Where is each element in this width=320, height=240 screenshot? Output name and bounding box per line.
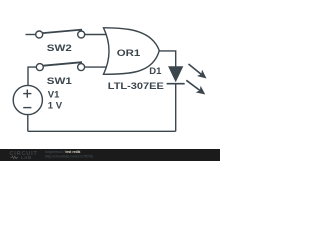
watermark bar [0,149,220,161]
wire SW2 left stub [26,34,36,36]
wire V1 minus down [27,115,29,132]
svg-text:http://circuitlab.com/crc7573b: http://circuitlab.com/crc7573b [45,154,93,158]
svg-text:V1: V1 [48,89,60,100]
switch SW2 [36,30,85,38]
wire OR1 output to LED anode [159,51,175,67]
svg-text:hotpwimc3 / test redik: hotpwimc3 / test redik [45,150,81,154]
voltage source V1 [13,85,42,114]
svg-text:LAB: LAB [21,155,32,160]
svg-text:SW1: SW1 [47,76,73,87]
svg-text:OR1: OR1 [117,48,141,59]
OR gate OR1 [104,28,160,75]
wire LED cathode down [175,84,177,132]
wire bottom rail [28,130,176,132]
wire SW1 left to V1 plus [28,67,36,85]
LED D1 [167,64,207,95]
switch SW1 [36,62,84,70]
wire SW2 to OR1 input A [85,34,109,36]
svg-text:SW2: SW2 [47,43,72,54]
svg-text:LTL-307EE: LTL-307EE [108,81,164,92]
svg-text:1 V: 1 V [48,101,63,112]
wire SW1 to OR1 input B [85,66,109,68]
svg-text:D1: D1 [149,66,162,77]
